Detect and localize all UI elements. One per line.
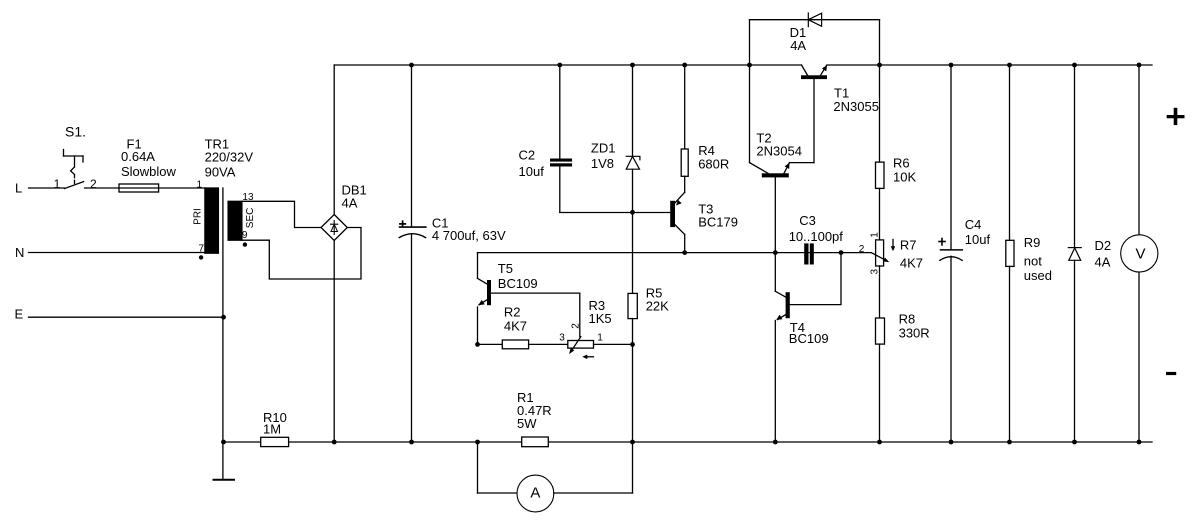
svg-text:220/32V: 220/32V bbox=[205, 150, 254, 165]
svg-text:22K: 22K bbox=[646, 298, 669, 313]
fuse F1 bbox=[119, 136, 177, 192]
svg-text:R8: R8 bbox=[899, 312, 916, 327]
potentiometer R3 bbox=[559, 298, 632, 359]
svg-text:9: 9 bbox=[242, 230, 248, 241]
svg-text:1: 1 bbox=[54, 177, 61, 191]
svg-text:4A: 4A bbox=[790, 38, 806, 53]
svg-text:C4: C4 bbox=[965, 217, 982, 232]
svg-text:4A: 4A bbox=[1095, 255, 1111, 270]
top rail junction x=1139 bbox=[1137, 63, 1142, 68]
control node junction x=775.3 bbox=[773, 250, 778, 255]
svg-text:90VA: 90VA bbox=[205, 164, 236, 179]
svg-text:BC179: BC179 bbox=[698, 215, 738, 230]
bottom rail junction x=1009.5 bbox=[1007, 440, 1012, 445]
sense node junction x=632.5 bbox=[630, 342, 635, 347]
svg-text:2N3054: 2N3054 bbox=[756, 143, 802, 158]
svg-text:R6: R6 bbox=[893, 155, 910, 170]
transistor T3 bbox=[670, 192, 738, 252]
svg-text:D2: D2 bbox=[1095, 238, 1112, 253]
wire top rail left bbox=[334, 64, 801, 66]
svg-text:BC109: BC109 bbox=[789, 331, 829, 346]
svg-text:2N3055: 2N3055 bbox=[833, 99, 879, 114]
svg-text:1M: 1M bbox=[263, 422, 281, 437]
svg-text:680R: 680R bbox=[698, 157, 729, 172]
node N bbox=[15, 245, 24, 260]
node plus terminal bbox=[1167, 108, 1185, 125]
top rail junction x=749.5 bbox=[747, 63, 752, 68]
svg-text:3: 3 bbox=[559, 333, 565, 344]
wire SEC pin13 to bridge bbox=[242, 201, 321, 227]
svg-text:4 700uf, 63V: 4 700uf, 63V bbox=[432, 228, 506, 243]
svg-text:4K7: 4K7 bbox=[504, 319, 527, 334]
svg-text:ZD1: ZD1 bbox=[591, 141, 616, 156]
svg-text:5W: 5W bbox=[517, 416, 537, 431]
svg-text:1: 1 bbox=[870, 232, 881, 238]
resistor R1 bbox=[517, 390, 552, 447]
node E bbox=[15, 307, 24, 322]
bottom rail junction x=879.5 bbox=[877, 440, 882, 445]
svg-text:R2: R2 bbox=[504, 305, 521, 320]
T3 base node junction x=632.5 bbox=[630, 210, 635, 215]
transistor T5 bbox=[478, 253, 538, 345]
wire bridge plus up bbox=[333, 65, 335, 215]
transistor T4 bbox=[775, 253, 841, 442]
top rail junction x=951 bbox=[949, 63, 954, 68]
bottom rail junction x=1074.5 bbox=[1072, 440, 1077, 445]
top rail junction x=879.5 bbox=[877, 63, 882, 68]
capacitor C4 bbox=[939, 65, 990, 442]
svg-text:10uf: 10uf bbox=[519, 164, 545, 179]
wire SEC pin9 to bridge bbox=[242, 228, 361, 280]
ammeter A bbox=[478, 442, 633, 512]
bottom rail junction x=477.5 bbox=[475, 440, 480, 445]
capacitor C2 bbox=[519, 65, 573, 212]
svg-text:10K: 10K bbox=[893, 170, 916, 185]
svg-text:4A: 4A bbox=[342, 195, 358, 210]
bottom rail junction x=951 bbox=[949, 440, 954, 445]
bottom rail junction x=632.5 bbox=[630, 440, 635, 445]
svg-text:Slowblow: Slowblow bbox=[121, 164, 177, 179]
svg-text:2: 2 bbox=[859, 244, 865, 255]
svg-text:1V8: 1V8 bbox=[591, 156, 614, 171]
capacitor C1 bbox=[399, 65, 506, 442]
svg-text:4K7: 4K7 bbox=[900, 255, 923, 270]
svg-text:BC109: BC109 bbox=[498, 276, 538, 291]
top rail junction x=684.7 bbox=[682, 63, 687, 68]
svg-text:S1.: S1. bbox=[65, 124, 86, 140]
svg-text:R9: R9 bbox=[1024, 235, 1041, 250]
wire L input bbox=[29, 187, 65, 189]
svg-text:N: N bbox=[15, 245, 24, 260]
resistor R8 bbox=[876, 266, 930, 442]
transistor T2 bbox=[750, 65, 815, 253]
diode D2 bbox=[1068, 65, 1111, 442]
voltmeter V bbox=[1121, 65, 1158, 442]
top rail junction x=1074.5 bbox=[1072, 63, 1077, 68]
wire C2 bottom to T3 base bbox=[560, 212, 670, 214]
svg-text:2: 2 bbox=[571, 323, 582, 329]
wire control node horizontal bbox=[478, 252, 872, 254]
switch S1 bbox=[54, 124, 97, 192]
wire N input bbox=[29, 252, 206, 254]
svg-text:7: 7 bbox=[198, 243, 204, 254]
zener ZD1 bbox=[591, 65, 640, 212]
wire switch to fuse bbox=[85, 187, 206, 189]
svg-text:10..100pf: 10..100pf bbox=[789, 229, 844, 244]
capacitor C3 bbox=[789, 213, 844, 265]
svg-text:1: 1 bbox=[597, 333, 603, 344]
bottom rail junction x=775.3 bbox=[773, 440, 778, 445]
wire top rail right bbox=[827, 64, 1152, 66]
bridge rectifier DB1 bbox=[321, 183, 367, 241]
svg-text:10uf: 10uf bbox=[965, 232, 991, 247]
resistor R9 bbox=[1006, 65, 1052, 442]
diode D1 bypass loop bbox=[750, 13, 880, 65]
svg-text:SEC: SEC bbox=[245, 208, 256, 229]
top rail junction x=411.5 bbox=[409, 63, 414, 68]
wire bottom rail bbox=[224, 441, 1153, 443]
top rail junction x=559.8 bbox=[557, 63, 562, 68]
bottom rail junction x=334.2 bbox=[332, 440, 337, 445]
resistor R10 bbox=[261, 410, 289, 447]
control node junction x=841 bbox=[839, 250, 844, 255]
node minus terminal bbox=[1166, 372, 1176, 375]
svg-text:C3: C3 bbox=[799, 213, 816, 228]
potentiometer R7 bbox=[859, 232, 923, 275]
resistor R2 bbox=[478, 305, 568, 349]
junction E-line bbox=[221, 315, 226, 320]
wire bridge minus down bbox=[333, 241, 335, 443]
svg-text:T5: T5 bbox=[498, 261, 513, 276]
transformer TR1 bbox=[193, 137, 256, 480]
svg-text:0.64A: 0.64A bbox=[121, 149, 155, 164]
control node junction x=684.7 bbox=[682, 250, 687, 255]
bottom rail junction x=411.5 bbox=[409, 440, 414, 445]
svg-text:1: 1 bbox=[196, 179, 202, 190]
node L bbox=[15, 181, 22, 196]
sense node junction x=477.5 bbox=[475, 342, 480, 347]
svg-text:V: V bbox=[1135, 246, 1145, 263]
resistor R5 bbox=[628, 212, 669, 344]
svg-text:not: not bbox=[1024, 253, 1042, 268]
resistor R6 bbox=[876, 65, 917, 240]
bottom rail junction x=1139 bbox=[1137, 440, 1142, 445]
svg-text:1K5: 1K5 bbox=[589, 311, 612, 326]
svg-text:2: 2 bbox=[90, 177, 97, 191]
wire R5 node to bottom rail bbox=[632, 344, 634, 442]
top rail junction x=1009.5 bbox=[1007, 63, 1012, 68]
svg-text:C2: C2 bbox=[519, 148, 536, 163]
wire T5 base to pot R3 bbox=[491, 293, 580, 337]
wire E input bbox=[29, 316, 224, 318]
svg-text:A: A bbox=[530, 484, 540, 501]
svg-text:R7: R7 bbox=[900, 238, 917, 253]
svg-text:330R: 330R bbox=[899, 326, 930, 341]
ground bbox=[214, 479, 235, 481]
top rail junction x=632.5 bbox=[630, 63, 635, 68]
svg-text:used: used bbox=[1024, 268, 1052, 283]
svg-text:L: L bbox=[15, 181, 22, 196]
transistor T1 bbox=[801, 65, 879, 163]
resistor R4 bbox=[681, 65, 729, 192]
svg-text:E: E bbox=[15, 307, 24, 322]
svg-text:PRI: PRI bbox=[193, 208, 204, 225]
bottom rail junction x=223.5 bbox=[221, 440, 226, 445]
